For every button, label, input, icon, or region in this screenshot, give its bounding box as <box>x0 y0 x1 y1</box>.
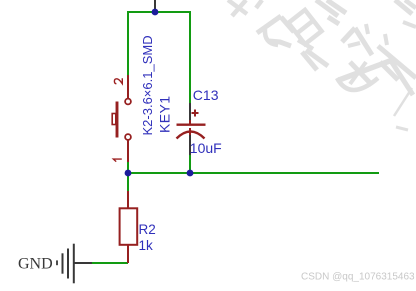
plus sign <box>192 110 199 117</box>
wire: top feed (dark) <box>154 0 156 12</box>
wire: junction down to resistor <box>127 173 129 191</box>
capacitor C13 <box>177 103 206 155</box>
svg-text:1k: 1k <box>139 238 154 253</box>
pin 1 terminal circle <box>125 134 131 140</box>
wire: main horizontal rail <box>127 172 379 174</box>
pin 2 terminal circle <box>125 99 131 105</box>
pushbutton KEY1 <box>112 75 131 162</box>
wire: button pin1 to junction <box>127 162 129 174</box>
wire: bottom horizontal to GND <box>92 262 128 264</box>
resistor R2 <box>120 191 138 263</box>
bottom plate arc <box>177 132 205 139</box>
wire: capacitor to junction <box>189 155 191 174</box>
gnd tiny bar <box>56 260 58 265</box>
pin top lead <box>127 191 129 208</box>
wire: top horizontal <box>127 11 190 13</box>
resistor body <box>120 208 138 245</box>
pin top red tip <box>189 120 191 125</box>
svg-text:GND: GND <box>18 256 53 273</box>
button bar <box>116 102 119 138</box>
gnd bar small <box>62 253 64 273</box>
gnd stem <box>74 262 92 264</box>
svg-text:K2-3.6×6.1_SMD: K2-3.6×6.1_SMD <box>140 35 155 135</box>
junction at capacitor bottom <box>187 170 194 177</box>
pin number 1 <box>113 159 121 162</box>
svg-text:CSDN @qq_1076315463: CSDN @qq_1076315463 <box>301 272 415 283</box>
watermark <box>228 0 416 130</box>
wire: right vertical to capacitor <box>189 11 191 103</box>
pin bottom lead <box>127 245 129 263</box>
gnd bar medium <box>67 249 69 279</box>
pin bottom (dark) <box>189 135 191 155</box>
junction at button bottom <box>125 170 132 177</box>
svg-text:KEY1: KEY1 <box>157 96 173 133</box>
top plate <box>177 123 206 125</box>
junction at top feed <box>152 9 159 16</box>
pin number 2 <box>114 78 122 83</box>
button actuator <box>112 114 116 125</box>
wire: left vertical to button <box>127 11 129 75</box>
pin bottom red tip <box>189 128 191 136</box>
svg-text:C13: C13 <box>193 87 219 103</box>
pin top (dark) <box>189 103 191 121</box>
power port GND <box>57 244 92 284</box>
svg-text:10uF: 10uF <box>190 140 222 156</box>
pin 2 lead <box>127 75 129 99</box>
svg-text:R2: R2 <box>139 222 156 237</box>
pin 1 lead <box>127 140 129 162</box>
gnd bar large <box>73 244 75 284</box>
